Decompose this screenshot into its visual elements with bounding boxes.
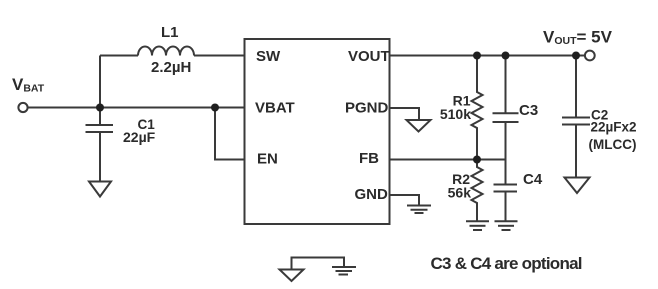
svg-text:2.2µH: 2.2µH (151, 59, 191, 76)
svg-text:C3 & C4 are optional: C3 & C4 are optional (431, 254, 582, 273)
svg-text:VOUT= 5V: VOUT= 5V (543, 28, 613, 48)
svg-text:GND: GND (355, 186, 389, 203)
svg-text:VBAT: VBAT (12, 75, 45, 95)
svg-text:C4: C4 (523, 171, 543, 188)
svg-text:(MLCC): (MLCC) (589, 137, 637, 152)
svg-text:PGND: PGND (345, 100, 389, 117)
svg-text:SW: SW (256, 48, 281, 65)
svg-text:VOUT: VOUT (348, 48, 390, 65)
svg-text:C3: C3 (519, 102, 538, 119)
svg-text:L1: L1 (161, 24, 179, 41)
svg-text:56k: 56k (448, 185, 472, 201)
svg-text:510k: 510k (440, 106, 471, 122)
svg-text:22µF: 22µF (123, 129, 156, 145)
svg-text:FB: FB (359, 150, 379, 167)
svg-text:VBAT: VBAT (255, 100, 295, 117)
svg-text:EN: EN (257, 151, 278, 168)
svg-text:22µFx2: 22µFx2 (591, 120, 637, 135)
